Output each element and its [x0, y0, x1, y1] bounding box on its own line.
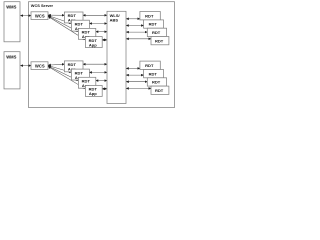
- svg-text:RDT: RDT: [145, 63, 154, 68]
- outer box WCS Server: [29, 2, 175, 108]
- svg-text:App: App: [89, 91, 97, 96]
- svg-text:WMS: WMS: [6, 55, 16, 60]
- wires WLS to right RDT col 2: [126, 68, 150, 88]
- fan wires WCS2 to RDT apps: [48, 64, 85, 89]
- svg-text:RDT: RDT: [155, 38, 164, 43]
- WCS box 1: [31, 12, 48, 20]
- wires RDT apps 1 to WLS: [83, 15, 107, 40]
- fan wires WCS1 to RDT apps: [48, 15, 85, 40]
- WCS box 2: [31, 62, 48, 70]
- right RDT column 1 box C: [147, 28, 166, 36]
- RDT App cascade 1 box 3: [78, 28, 95, 39]
- RDT App cascade 2 box 3: [78, 77, 95, 88]
- right RDT column 2 box D: [151, 86, 169, 94]
- RDT App cascade 2 box 1: [64, 61, 83, 72]
- svg-text:App: App: [89, 42, 97, 47]
- right RDT column 1 box B: [144, 20, 164, 28]
- svg-text:WCS: WCS: [35, 14, 45, 19]
- right RDT column 2 box A: [140, 61, 160, 69]
- WMS box 1: [4, 2, 20, 42]
- WLS ABS tall box: [107, 11, 126, 103]
- RDT App cascade 1 box 1: [64, 12, 83, 23]
- right RDT column 1 box D: [151, 37, 169, 45]
- svg-text:WCS: WCS: [35, 64, 45, 69]
- wire WMS2-WCS2: [21, 65, 31, 67]
- svg-text:RDT: RDT: [149, 22, 158, 27]
- wires WLS to right RDT col 1: [126, 19, 150, 39]
- svg-text:RDT: RDT: [152, 30, 161, 35]
- RDT App cascade 1 box 4: [85, 37, 102, 48]
- svg-text:RDT: RDT: [145, 13, 154, 18]
- RDT App cascade 1 box 2: [71, 20, 89, 31]
- RDT App cascade 2 box 4: [85, 86, 102, 97]
- svg-text:WCS Server: WCS Server: [31, 3, 54, 8]
- WMS box 2: [4, 52, 20, 89]
- wires RDT apps 2 to WLS: [83, 64, 107, 89]
- svg-text:RDT: RDT: [155, 88, 164, 93]
- svg-text:ABS: ABS: [110, 18, 119, 23]
- RDT App cascade 2 box 2: [71, 69, 89, 80]
- right RDT column 2 box C: [147, 78, 166, 86]
- right RDT column 2 box B: [144, 70, 164, 78]
- svg-text:RDT: RDT: [149, 71, 158, 76]
- wire WMS1-WCS1: [21, 15, 31, 17]
- right RDT column 1 box A: [140, 12, 160, 20]
- svg-text:RDT: RDT: [152, 80, 161, 85]
- svg-text:WMS: WMS: [6, 5, 16, 10]
